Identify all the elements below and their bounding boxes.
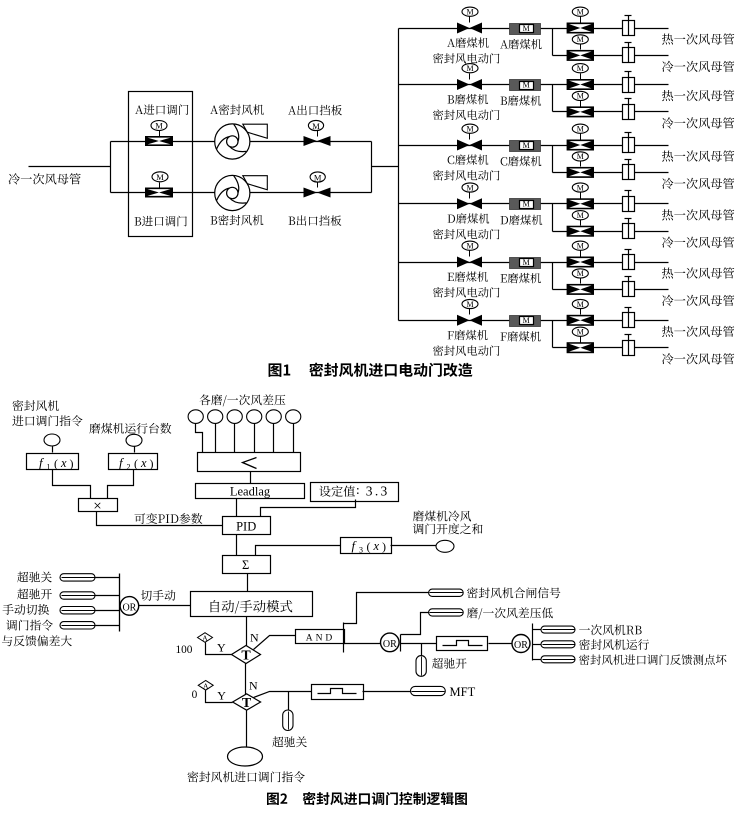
wire multiply out to PID — [97, 512, 223, 526]
svg-text:Y: Y — [217, 688, 226, 702]
label cold header C — [662, 178, 734, 189]
valve D mill seal air motor valve — [457, 193, 482, 210]
valve C hot branch — [567, 134, 594, 151]
wire: mill D hot line — [399, 203, 669, 205]
svg-text:1: 1 — [47, 463, 51, 472]
wire OR1 to stepbox — [401, 643, 437, 645]
label mill cold damper sum — [413, 511, 483, 535]
damper D cold — [623, 219, 635, 239]
svg-text:A: A — [203, 681, 209, 690]
motor M for F mill valve — [462, 299, 478, 308]
svg-text:100: 100 — [176, 644, 193, 656]
wire f1 out — [53, 470, 91, 499]
motor M for B mill valve — [462, 64, 478, 73]
label hot header C — [662, 150, 734, 161]
svg-text:M: M — [466, 183, 473, 192]
label hot header B — [662, 90, 734, 101]
svg-text:M: M — [466, 125, 473, 134]
motor M B hot — [572, 64, 588, 73]
wire ms — [96, 610, 120, 612]
label mill dP low — [467, 607, 553, 619]
valve A inlet (A进口调门) — [145, 131, 173, 147]
flag A above 100 — [198, 633, 213, 643]
label E mill (left) — [448, 271, 488, 281]
svg-text:M: M — [577, 125, 584, 134]
svg-text:): ) — [70, 457, 74, 471]
valve B outlet (B出口挡板) — [304, 183, 331, 198]
wire: circle3 stem — [234, 424, 236, 453]
node input circle 6 — [286, 410, 301, 424]
valve F mill seal air motor valve — [457, 309, 482, 326]
wire: distribution manifold vertical — [398, 29, 400, 321]
signal capsule manual switch — [60, 607, 95, 614]
valve C cold branch — [567, 161, 594, 178]
label N T1 — [250, 631, 259, 645]
svg-text:M: M — [523, 24, 530, 33]
label B mill (right) — [501, 95, 542, 105]
motor M B cold — [572, 91, 588, 100]
wire: to manifold — [372, 166, 399, 168]
svg-text:M: M — [312, 121, 320, 131]
caption figure 1 — [269, 363, 473, 377]
damper B cold — [623, 99, 635, 120]
wire seal fan closed to AND bar — [344, 593, 429, 624]
motor M E hot — [572, 241, 588, 250]
wire: circle4 stem — [254, 424, 256, 453]
wire: mill C hot line — [399, 145, 669, 147]
svg-text:M: M — [577, 35, 584, 44]
wire OR-left collector bar — [119, 574, 121, 632]
wire: mill E cold line — [553, 289, 669, 291]
svg-text:M: M — [523, 200, 530, 209]
wire AND collector bar — [343, 623, 345, 653]
node input circle 2 — [208, 410, 223, 424]
label Y T1 — [217, 641, 226, 655]
wire dP low to OR1 bar — [401, 613, 429, 635]
motor M D hot — [572, 183, 588, 192]
label constant 100 — [176, 644, 193, 656]
damper C cold — [623, 160, 635, 180]
wire: outlet vertical join — [371, 142, 373, 193]
wire 100 to T1 Y — [206, 643, 232, 655]
damper F cold — [623, 335, 635, 356]
svg-text:M: M — [577, 64, 584, 73]
block Leadlag — [196, 484, 305, 499]
label seal fan inlet valve cmd (top-left) — [12, 400, 82, 426]
svg-text:M: M — [314, 172, 322, 182]
svg-text:×: × — [93, 499, 101, 515]
svg-text:T: T — [241, 648, 251, 663]
wire stub feedback bad — [533, 659, 542, 661]
svg-text:M: M — [466, 64, 473, 73]
wire oo — [96, 595, 120, 597]
motor M for A mill valve — [462, 7, 478, 16]
wire OR1 bar — [400, 635, 402, 652]
svg-text:M: M — [577, 242, 584, 251]
wire: fan B inlet line — [111, 192, 372, 194]
label valve cmd deviation line2 — [2, 635, 72, 646]
motor M A hot — [572, 7, 588, 16]
node circle above f1 — [44, 434, 60, 446]
label cold header E — [662, 295, 734, 306]
label cold header A — [662, 61, 734, 72]
label cold header D — [662, 237, 734, 248]
signal capsule MFT — [411, 686, 446, 695]
wire: circle2 stem — [215, 424, 217, 453]
wire auto/manual down to T1 — [246, 617, 248, 646]
valve A cold branch — [567, 44, 594, 61]
wire: circle1 stem jog — [196, 424, 203, 453]
wire setpoint to PID — [261, 500, 356, 517]
valve B inlet (B进口调门) — [145, 183, 173, 198]
valve E hot branch — [567, 251, 594, 268]
label B mill (left) — [448, 94, 489, 104]
label per-mill dP — [199, 394, 285, 406]
wire: mill B split vertical — [552, 85, 554, 112]
label hot header D — [662, 209, 734, 220]
motor M for B outlet — [310, 172, 325, 182]
mill A motor box — [510, 24, 541, 35]
svg-text:M: M — [577, 183, 584, 192]
label constant 0 — [192, 689, 198, 701]
label fan A — [210, 104, 264, 115]
svg-text:M: M — [577, 152, 584, 161]
svg-text:2: 2 — [127, 463, 131, 472]
damper A cold — [623, 43, 635, 63]
label A inlet valve — [135, 104, 188, 115]
svg-text:M: M — [577, 211, 584, 220]
wire: mill E split vertical — [552, 263, 554, 290]
mill E motor box — [510, 258, 541, 269]
valve E mill seal air motor valve — [457, 251, 482, 268]
svg-text:(: ( — [367, 539, 371, 553]
svg-text:OR: OR — [122, 602, 136, 613]
svg-text:M: M — [156, 172, 164, 182]
wire T2 down to output — [246, 711, 248, 748]
wire stub RB — [533, 629, 542, 631]
svg-text:0: 0 — [192, 689, 198, 701]
motor M for A outlet — [308, 120, 323, 130]
wire: mill B hot line — [399, 84, 669, 86]
label D mill (right) — [501, 215, 543, 225]
label switch to manual — [141, 590, 176, 601]
block f1(x) — [27, 454, 79, 472]
block PID — [223, 517, 271, 535]
valve F cold branch — [567, 337, 594, 354]
valve D cold branch — [567, 220, 594, 237]
wire T2 N out — [254, 692, 312, 698]
signal capsule deviation — [60, 622, 95, 629]
motor M for valve A inlet — [151, 121, 167, 131]
svg-text:M: M — [523, 258, 530, 267]
label A mill (left) — [447, 37, 489, 47]
wire: circle6 stem — [293, 424, 295, 453]
label hot header A — [662, 33, 734, 44]
label hot header F — [662, 326, 734, 337]
flag A above 0 — [198, 681, 213, 691]
label Y T2 — [217, 688, 226, 702]
node: cold primary air header label — [9, 173, 81, 184]
mill D motor box — [510, 199, 541, 210]
label fan B — [211, 215, 264, 226]
wire: mill A hot line — [399, 28, 669, 30]
svg-text:M: M — [577, 92, 584, 101]
label override close 2 — [272, 736, 307, 747]
wire stepbox to OR2 — [489, 643, 513, 645]
label hot header E — [662, 267, 734, 278]
svg-text:AND: AND — [306, 633, 336, 643]
signal capsule override open — [60, 592, 95, 599]
wire dv — [96, 625, 120, 627]
label D mill (left) — [448, 213, 490, 223]
node output ellipse — [228, 747, 263, 766]
label output seal fan inlet valve cmd — [188, 771, 305, 782]
wire junction to override-open capsule — [421, 644, 423, 656]
wire: mill D split vertical — [552, 204, 554, 232]
label seal air motor valve E — [433, 287, 499, 298]
damper B hot — [623, 72, 635, 93]
svg-text:N: N — [249, 678, 258, 692]
signal capsule seal fan closed — [429, 589, 464, 596]
signal capsule mill dP low — [429, 609, 464, 616]
block f2(x) — [109, 454, 158, 472]
wire stepbox2 to MFT capsule — [363, 691, 411, 693]
signal capsule override close 2 (vertical) — [283, 710, 293, 731]
label B outlet damper — [289, 215, 342, 226]
wire T1 N out to AND — [254, 636, 296, 650]
svg-text:OR: OR — [383, 639, 397, 650]
valve B cold branch — [567, 101, 594, 118]
boundary box around inlet valves — [129, 92, 193, 237]
svg-text:Σ: Σ — [242, 558, 249, 572]
wire: mill F cold line — [553, 347, 669, 349]
label N T2 — [249, 678, 258, 692]
label valve cmd deviation line1 — [6, 620, 53, 631]
valve A mill seal air motor valve — [457, 17, 482, 34]
wire oc — [96, 577, 120, 579]
wire: mill A split vertical — [552, 29, 554, 56]
svg-text:M: M — [577, 8, 584, 17]
svg-text:M: M — [466, 242, 473, 251]
damper D hot — [623, 191, 635, 212]
wire f3 right to sensor — [391, 545, 437, 547]
svg-text:M: M — [466, 300, 473, 309]
svg-text:∶: ∶ — [356, 485, 359, 499]
valve D hot branch — [567, 193, 594, 210]
wire: mill D cold line — [553, 231, 669, 233]
label seal air motor valve B — [433, 110, 499, 121]
svg-text:x: x — [373, 539, 380, 553]
motor M for C mill valve — [462, 124, 478, 133]
damper E cold — [623, 277, 635, 297]
label override open — [17, 589, 52, 600]
label B inlet valve — [135, 216, 187, 227]
label F mill (right) — [501, 331, 541, 341]
label seal fan running — [579, 639, 649, 650]
label seal air motor valve D — [433, 229, 499, 240]
wire f3 left to SUM — [256, 546, 341, 556]
motor M D cold — [572, 211, 588, 220]
svg-text:): ) — [150, 457, 154, 471]
fan B (B密封风机) — [215, 175, 268, 210]
wire: mill F hot line — [399, 320, 669, 322]
svg-text:N: N — [250, 631, 259, 645]
svg-text:(: ( — [54, 457, 58, 471]
caption figure 2 — [267, 792, 467, 805]
motor M for E mill valve — [462, 241, 478, 250]
label primary fan RB — [579, 624, 641, 635]
block multiply — [79, 499, 118, 515]
svg-text:MFT: MFT — [450, 685, 476, 699]
svg-text:M: M — [155, 121, 163, 131]
signal capsule primary fan RB — [541, 626, 575, 633]
label seal fan closed signal — [467, 587, 560, 598]
motor M F cold — [572, 327, 588, 336]
gate OR left — [120, 597, 139, 616]
wire: mill C split vertical — [552, 146, 554, 173]
svg-text:Y: Y — [217, 641, 226, 655]
wire: mill C cold line — [553, 172, 669, 174]
svg-text:(: ( — [134, 457, 138, 471]
label C mill (left) — [448, 154, 489, 164]
wire: f2 circle stem — [134, 447, 136, 453]
valve C mill seal air motor valve — [457, 134, 482, 151]
block auto/manual mode — [191, 592, 313, 617]
svg-text:M: M — [466, 8, 473, 17]
wire: mill F split vertical — [552, 321, 554, 348]
mill F motor box — [510, 316, 541, 327]
svg-text:M: M — [577, 328, 584, 337]
label seal air motor valve A — [433, 53, 499, 64]
block comparator < — [198, 453, 301, 472]
node input circle 3 — [227, 410, 242, 424]
label override open 2 — [432, 658, 467, 669]
wire: inlet branch vertical — [110, 142, 112, 193]
wire f2 out — [108, 470, 134, 499]
valve A hot branch — [567, 17, 594, 34]
block SUM sigma — [223, 556, 271, 574]
node circle above f2 — [126, 434, 142, 446]
label seal air motor valve F — [433, 345, 499, 356]
motor M F hot — [572, 299, 588, 308]
label A mill (right) — [500, 39, 542, 49]
label override close — [17, 572, 52, 583]
block rate limiter 1 — [437, 637, 488, 651]
node input circle 5 — [266, 410, 281, 424]
wire OR2 bar — [532, 624, 534, 661]
signal capsule override close — [60, 574, 95, 581]
damper C hot — [623, 133, 635, 153]
damper E hot — [623, 250, 635, 270]
wire: fan A inlet line — [111, 141, 372, 143]
node input circle 4 — [247, 410, 262, 424]
svg-text:3: 3 — [359, 545, 363, 554]
valve E cold branch — [567, 278, 594, 295]
label seal air motor valve C — [433, 170, 499, 181]
signal capsule override open 2 (vertical) — [416, 656, 426, 677]
svg-text:Leadlag: Leadlag — [230, 485, 271, 499]
wire: mill A cold line — [553, 55, 669, 57]
svg-text:A: A — [202, 634, 208, 643]
wire stub fan run — [533, 644, 542, 646]
motor M C cold — [572, 152, 588, 161]
wire 0 to T2 Y — [206, 691, 233, 703]
wire: mill E hot line — [399, 262, 669, 264]
svg-text:x: x — [60, 456, 67, 470]
svg-text:M: M — [523, 316, 530, 325]
valve B hot branch — [567, 74, 594, 91]
svg-text:x: x — [140, 456, 147, 470]
svg-text:PID: PID — [236, 519, 256, 533]
label E mill (right) — [501, 273, 541, 283]
svg-text:M: M — [577, 300, 584, 309]
damper F hot — [623, 308, 635, 328]
gate OR2 — [512, 635, 530, 653]
label C mill (right) — [501, 156, 542, 166]
wire OR-left to auto/manual — [139, 605, 191, 607]
svg-text:3.3: 3.3 — [366, 484, 390, 499]
valve B mill seal air motor valve — [457, 74, 482, 91]
svg-text:M: M — [523, 80, 530, 89]
label manual switch — [3, 604, 50, 615]
wire: mill B cold line — [553, 111, 669, 113]
mill C motor box — [510, 141, 541, 152]
label variable PID params — [134, 513, 202, 524]
motor M C hot — [572, 124, 588, 133]
selector T2 — [233, 694, 261, 711]
motor M for D mill valve — [462, 183, 478, 192]
block setpoint 3.3 — [311, 483, 399, 502]
wire junction to override-close capsule — [288, 692, 290, 711]
wire SUM to auto/manual — [247, 574, 249, 592]
wire T1 to T2 — [245, 664, 247, 695]
label F mill (left) — [448, 330, 488, 340]
node input circle 1 — [188, 410, 203, 424]
block rate limiter 2 (MFT) — [312, 685, 364, 700]
motor M E cold — [572, 269, 588, 278]
wire < to Leadlag — [250, 472, 252, 484]
label cold header F — [662, 353, 734, 364]
motor M A cold — [572, 35, 588, 44]
wire Leadlag to PID — [236, 499, 238, 517]
block AND — [296, 630, 345, 644]
wire: f1 circle stem — [52, 447, 54, 453]
label MFT — [450, 685, 476, 699]
fan A (A密封风机) — [215, 124, 268, 159]
wire: cold primary air feed — [29, 166, 111, 168]
wire: circle5 stem — [273, 424, 275, 453]
label A outlet damper — [288, 105, 342, 116]
signal capsule seal fan running — [541, 641, 575, 648]
svg-text:M: M — [523, 141, 530, 150]
gate OR1 — [381, 633, 400, 652]
motor M for valve B inlet — [152, 172, 168, 182]
svg-text:OR: OR — [514, 640, 528, 651]
label running mill count — [89, 423, 171, 434]
wire AND out — [344, 643, 381, 645]
label cold header B — [662, 117, 734, 128]
valve F hot branch — [567, 309, 594, 326]
damper A hot — [623, 16, 635, 36]
valve A outlet (A出口挡板) — [304, 131, 331, 147]
mill B motor box — [510, 80, 541, 91]
svg-text:T: T — [242, 696, 252, 711]
svg-text:M: M — [577, 269, 584, 278]
block f3(x) — [341, 538, 392, 555]
selector T1 — [232, 646, 261, 664]
node sensor circle (cold damper sum) — [436, 540, 454, 552]
label feedback point bad — [579, 654, 726, 665]
